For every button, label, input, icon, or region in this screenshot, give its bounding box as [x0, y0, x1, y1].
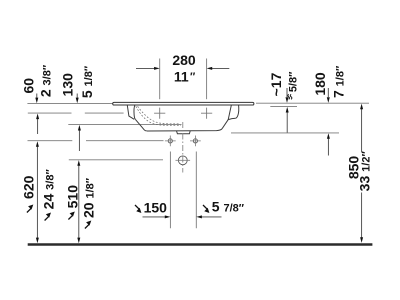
svg-text:150: 150	[144, 199, 168, 215]
faucet hole cross right	[201, 108, 212, 119]
dimension 150 arrows	[143, 216, 222, 218]
leader line fixing holes level	[28, 140, 164, 142]
drain circle	[178, 156, 187, 165]
leader line 60mm level	[28, 112, 124, 114]
label arrow 510	[68, 215, 72, 219]
floor line	[28, 243, 373, 246]
extension line 280 left	[159, 59, 161, 100]
fixing hole left	[168, 139, 172, 143]
basin front silhouette diagonal	[135, 119, 146, 130]
label arrow 620	[27, 208, 31, 212]
svg-text:180: 180	[312, 72, 328, 96]
svg-text:″: ″	[190, 71, 196, 83]
dimension 180 arrows	[327, 88, 329, 156]
svg-text:60: 60	[20, 78, 36, 94]
basin back wall inner edge	[228, 105, 231, 119]
basin bowl bottom	[147, 129, 222, 131]
drain centerline	[182, 122, 184, 173]
label arrow 20 1/8	[85, 224, 89, 228]
dimension ~620 line	[36, 146, 38, 239]
leader line rim-top right	[256, 102, 369, 104]
svg-text:280: 280	[172, 52, 196, 68]
approx squiggle at ~17 arrow	[288, 94, 292, 99]
hidden interior contour lower	[136, 106, 181, 125]
svg-text:~17: ~17	[268, 72, 284, 96]
basin front wall outer edge	[127, 105, 134, 119]
svg-text:620: 620	[21, 175, 37, 199]
faucet hole cross left	[154, 108, 165, 119]
label arrow 24 3/8	[45, 216, 49, 220]
svg-text:5/8″: 5/8″	[287, 71, 299, 92]
dimension 850 line	[361, 109, 363, 239]
basin rim slab	[113, 102, 254, 105]
dimension 280 arrows	[136, 67, 229, 69]
extension lines 150	[170, 152, 196, 229]
basin back wall outer edge	[236, 105, 239, 118]
drain outlet boss	[177, 131, 191, 134]
extension line 280 right	[206, 59, 208, 100]
dimension 130 arrows	[77, 94, 79, 152]
basin back wall bottom connector	[228, 118, 236, 119]
svg-text:510: 510	[64, 185, 80, 209]
label arrow 150	[135, 205, 139, 209]
leader line 130mm level	[68, 123, 181, 125]
hidden interior contour upper	[138, 106, 179, 124]
fixing hole right	[193, 139, 197, 143]
dimension 510 line	[78, 166, 80, 239]
svg-text:130: 130	[60, 73, 76, 97]
leader line ~17 level	[270, 105, 297, 107]
label arrow 5 7/8	[203, 205, 207, 209]
basin back silhouette diagonal	[222, 119, 228, 128]
svg-text:11: 11	[174, 69, 189, 85]
leader line 180 level	[231, 132, 339, 134]
leader line drain level	[69, 159, 163, 161]
dimension 60 arrows	[36, 94, 39, 135]
dimension ~17 arrows	[286, 88, 288, 133]
leader line rim-top left	[27, 102, 112, 104]
basin front wall inner edge	[134, 105, 135, 119]
